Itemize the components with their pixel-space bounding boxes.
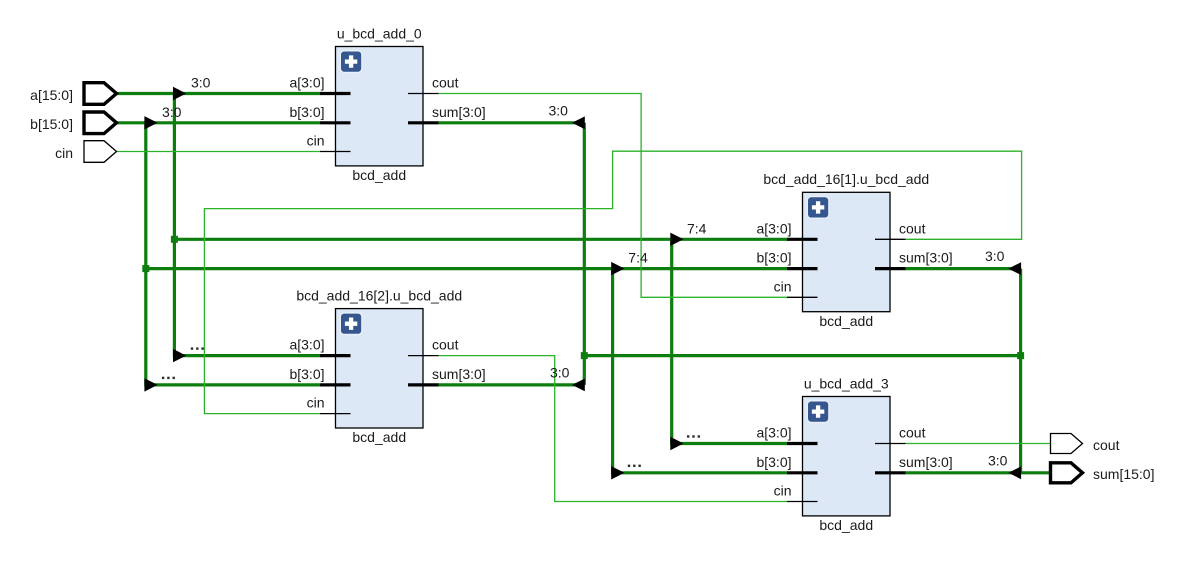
svg-text:sum[3:0]: sum[3:0]: [432, 366, 486, 382]
svg-text:bcd_add_16[2].u_bcd_add: bcd_add_16[2].u_bcd_add: [296, 287, 462, 303]
svg-text:3:0: 3:0: [549, 102, 569, 118]
svg-text:cin: cin: [55, 145, 73, 161]
svg-text:bcd_add: bcd_add: [819, 517, 873, 533]
svg-text:a[3:0]: a[3:0]: [289, 75, 324, 91]
svg-text:b[3:0]: b[3:0]: [289, 104, 324, 120]
svg-text:cout: cout: [1093, 437, 1120, 453]
svg-text:b[3:0]: b[3:0]: [756, 454, 791, 470]
svg-text:cout: cout: [899, 425, 926, 441]
svg-text:cout: cout: [432, 337, 459, 353]
svg-text:u_bcd_add_3: u_bcd_add_3: [804, 375, 889, 391]
svg-text:cin: cin: [774, 483, 792, 499]
svg-text:b[3:0]: b[3:0]: [289, 366, 324, 382]
svg-text:a[3:0]: a[3:0]: [289, 337, 324, 353]
svg-text:bcd_add_16[1].u_bcd_add: bcd_add_16[1].u_bcd_add: [763, 171, 929, 187]
svg-text:cin: cin: [307, 133, 325, 149]
svg-text:3:0: 3:0: [985, 248, 1005, 264]
svg-text:bcd_add: bcd_add: [352, 167, 406, 183]
svg-text:7:4: 7:4: [628, 250, 648, 266]
svg-text:b[15:0]: b[15:0]: [30, 116, 73, 132]
svg-text:sum[3:0]: sum[3:0]: [432, 104, 486, 120]
svg-text:a[3:0]: a[3:0]: [756, 425, 791, 441]
svg-text:sum[3:0]: sum[3:0]: [899, 250, 953, 266]
svg-text:sum[3:0]: sum[3:0]: [899, 454, 953, 470]
svg-text:7:4: 7:4: [687, 220, 707, 236]
svg-text:3:0: 3:0: [191, 75, 211, 91]
svg-text:sum[15:0]: sum[15:0]: [1093, 466, 1154, 482]
svg-text:bcd_add: bcd_add: [352, 429, 406, 445]
svg-text:a[15:0]: a[15:0]: [30, 87, 73, 103]
svg-text:a[3:0]: a[3:0]: [756, 220, 791, 236]
svg-text:3:0: 3:0: [162, 104, 182, 120]
svg-text:cout: cout: [899, 220, 926, 236]
svg-text:b[3:0]: b[3:0]: [756, 250, 791, 266]
svg-text:cin: cin: [774, 278, 792, 294]
svg-text:bcd_add: bcd_add: [819, 313, 873, 329]
svg-text:cin: cin: [307, 395, 325, 411]
svg-text:u_bcd_add_0: u_bcd_add_0: [337, 25, 422, 41]
svg-text:3:0: 3:0: [550, 364, 570, 380]
svg-text:3:0: 3:0: [988, 452, 1008, 468]
svg-text:cout: cout: [432, 75, 459, 91]
